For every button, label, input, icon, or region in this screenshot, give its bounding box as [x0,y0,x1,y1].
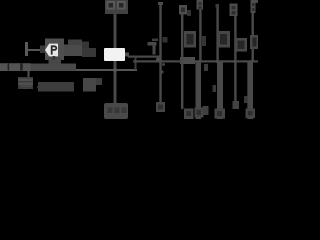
component U1 white body [104,48,125,61]
ladder rail L4 [213,4,231,119]
node tick left terminal [25,42,28,56]
ladder rail L3 [195,0,209,119]
left net label text [0,63,31,70]
bus horizontal [133,60,258,62]
wire label text thick band [31,56,77,71]
capacitor at L1 junction [148,42,161,62]
bus thick section [180,57,195,64]
capacitor C1 plates [18,79,33,86]
top connector block [105,0,128,14]
ladder rail L2 [179,5,196,119]
capacitor C1 body mush [18,77,33,89]
capacitor C1 lead [28,71,30,79]
net flag halo [45,39,96,61]
wire U1 to ladder [128,56,161,58]
ground [20,86,39,90]
bus junction dots [159,60,254,63]
main horizontal wire [0,69,137,71]
ladder rail L6 [244,0,258,119]
wire from U1 bottom [114,61,117,104]
port flag P [40,44,58,57]
pin nub right [125,53,129,57]
ladder rail L5 [230,4,248,110]
wire from U1 top [114,13,117,48]
directive text row [38,78,102,92]
junction dot [113,68,117,72]
bottom component blob [104,103,128,119]
ladder rail L1 [152,2,168,112]
wire drop at x135 [135,57,137,70]
wire into flag [28,49,46,51]
